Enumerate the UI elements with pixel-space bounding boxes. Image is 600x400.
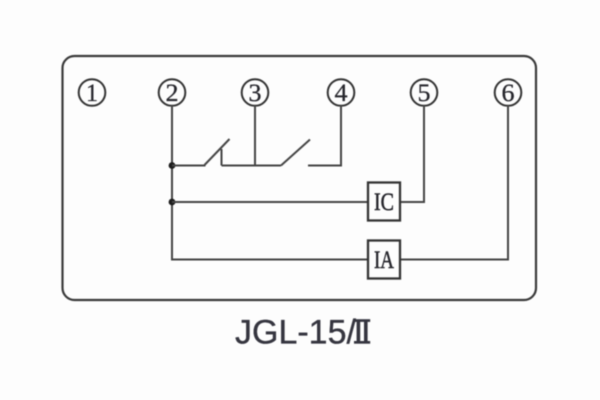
- svg-text:3: 3: [249, 80, 262, 107]
- wire contact-row left lead: [172, 165, 206, 167]
- wire stem terminal 5: [423, 106, 425, 204]
- terminal 3: [242, 79, 269, 107]
- terminal 6: [495, 79, 522, 107]
- svg-text:IA: IA: [374, 247, 394, 274]
- wire contact-row right lead: [308, 165, 341, 167]
- svg-text:5: 5: [418, 80, 431, 107]
- wire stem terminal 4: [340, 106, 342, 167]
- wire IA row: [171, 259, 368, 261]
- model label JGL-15/II: [235, 314, 370, 352]
- coil box IA: [368, 241, 400, 279]
- wire IC row: [172, 201, 368, 203]
- junction dot B (terminal 2 / IC row): [169, 199, 176, 206]
- wire stem terminal 3: [254, 106, 256, 166]
- contact K2 blade (terminals 3-4, make contact): [281, 140, 310, 166]
- svg-text:2: 2: [166, 80, 179, 107]
- coil box IC: [368, 183, 400, 221]
- wire contact-row middle lead (stub to terminal 3 to K2): [222, 165, 282, 167]
- roman numeral II of model label: [354, 319, 370, 344]
- enclosure outline: [63, 56, 537, 300]
- contact K1 blade (terminals 2-3, break contact): [205, 139, 230, 165]
- junction dot A (terminal 2 / contact row): [169, 162, 176, 169]
- wire stem terminal 6: [507, 106, 509, 261]
- terminal 2: [159, 79, 186, 107]
- terminal 1: [79, 79, 106, 107]
- terminal 4: [328, 79, 355, 107]
- svg-text:JGL-15/: JGL-15/: [235, 314, 356, 352]
- svg-text:IC: IC: [374, 189, 394, 216]
- wire IA to terminal 6: [400, 259, 509, 261]
- svg-text:1: 1: [86, 80, 98, 107]
- wire IC to terminal 5: [400, 201, 425, 203]
- wire stem terminal 2: [171, 106, 173, 260]
- contact K1 fixed stub: [221, 149, 223, 166]
- svg-text:6: 6: [502, 80, 515, 107]
- terminal 5: [411, 79, 438, 107]
- svg-text:4: 4: [335, 80, 349, 107]
